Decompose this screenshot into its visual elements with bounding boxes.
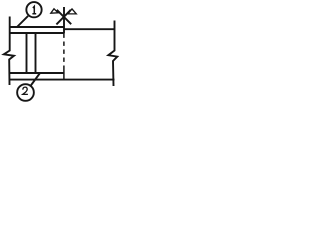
leader line to callout 2 <box>31 73 40 86</box>
column left line <box>26 33 28 74</box>
callout circle 2 <box>17 84 34 101</box>
beam top lower line <box>10 32 65 34</box>
callout number 2 <box>23 87 28 94</box>
hanger flag right triangle <box>68 9 76 14</box>
callout circle 1 <box>26 2 41 17</box>
hanger symbol diagonal B <box>56 10 70 25</box>
beam top right single line <box>64 28 115 30</box>
hidden center line dashed upper part <box>63 34 65 64</box>
wall right with break <box>108 21 117 87</box>
hanger symbol vertical <box>63 7 65 33</box>
wall left with break <box>4 17 14 86</box>
hanger symbol diagonal A <box>57 10 71 24</box>
beam top upper line <box>10 26 65 28</box>
hidden center line lower solid part <box>63 66 65 80</box>
beam bottom upper line <box>10 72 65 74</box>
column right line <box>35 33 37 74</box>
leader line to callout 1 <box>17 16 28 27</box>
hanger flag left triangle <box>51 9 58 13</box>
callout number 1 <box>32 6 36 13</box>
beam bottom lower line <box>10 79 115 81</box>
